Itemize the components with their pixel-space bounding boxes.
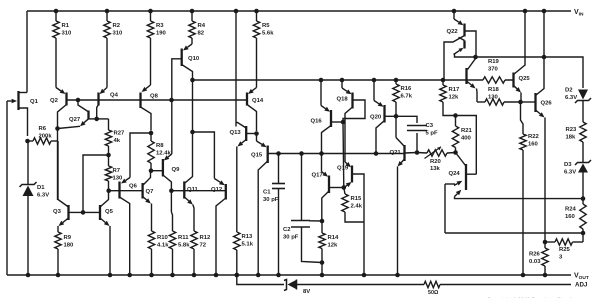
node Q22/Q23 collector junction: [473, 55, 478, 60]
node C2 bottom / R14 bottom: [320, 260, 325, 265]
svg-text:5.6k: 5.6k: [262, 31, 274, 37]
node rail joints: [26, 273, 31, 278]
resistor R14: [321, 221, 323, 233]
resistor R12: [193, 205, 194, 232]
transistor Q27: [76, 98, 81, 103]
resistor R6: [25, 139, 30, 144]
node V_IN rail / Q25 collector: [523, 9, 528, 14]
node R16 bottom / Q20 base / C3 / Q21 collector: [394, 114, 399, 119]
transistor Q4: [106, 38, 108, 88]
node Q20 collector on Q15 base line: [374, 151, 379, 156]
capacitor C1: [276, 151, 281, 156]
zener diode D3: [575, 160, 591, 165]
svg-text:Q6: Q6: [129, 184, 138, 190]
resistor R1: [54, 9, 59, 14]
svg-text:Q21: Q21: [390, 150, 402, 156]
svg-text:Q20: Q20: [370, 115, 382, 121]
transistor Q5: [99, 205, 101, 220]
resistor R22: [521, 102, 524, 134]
node Q13 base / Q14 collector: [254, 131, 259, 136]
svg-text:30 pF: 30 pF: [283, 235, 299, 241]
svg-text:160: 160: [565, 214, 576, 220]
wire base line to R20 node: [405, 152, 418, 155]
svg-text:R11: R11: [178, 235, 189, 241]
svg-text:18k: 18k: [566, 135, 577, 141]
node D3 / R24 / Q24 emitter line: [581, 196, 586, 201]
transistor Q20: [372, 78, 377, 83]
node Q12 emitter tap: [190, 130, 195, 135]
svg-text:Q25: Q25: [519, 76, 531, 82]
wire emitter feed to Q12: [193, 132, 215, 179]
svg-text:370: 370: [488, 67, 499, 73]
svg-text:R4: R4: [198, 23, 206, 29]
svg-text:R9: R9: [64, 235, 72, 241]
svg-text:180: 180: [64, 243, 75, 249]
svg-text:R12: R12: [200, 235, 212, 241]
transistor Q9: [168, 154, 172, 157]
svg-text:6.3V: 6.3V: [37, 193, 49, 199]
resistor R25: [555, 239, 573, 245]
svg-text:R16: R16: [401, 86, 413, 92]
resistor R19: [483, 77, 505, 83]
svg-text:Q9: Q9: [172, 167, 181, 173]
wire Q1 gate to bottom rail corner: [6, 101, 8, 275]
resistor 50 ohm: [424, 281, 440, 287]
svg-text:C1: C1: [263, 190, 271, 196]
wire junction to Q3-Q5 base rail: [83, 155, 109, 212]
transistor Q1: [19, 92, 27, 94]
svg-text:Q16: Q16: [311, 119, 323, 125]
svg-text:Q17: Q17: [312, 173, 324, 179]
svg-text:6.3V: 6.3V: [564, 170, 576, 176]
svg-text:R3: R3: [156, 23, 164, 29]
transistor Q19: [345, 162, 347, 164]
transistor Q17: [319, 151, 324, 156]
node Q10 collector / bias rail start: [190, 78, 195, 83]
resistor R20 (with adjust arrow): [417, 152, 427, 155]
svg-text:190: 190: [156, 31, 167, 37]
svg-text:R6: R6: [39, 126, 47, 132]
svg-text:R21: R21: [461, 128, 473, 134]
transistor Q6: [126, 178, 131, 181]
wire Q10 base column to Q9 emitter: [171, 100, 173, 154]
svg-text:Q26: Q26: [541, 101, 553, 107]
svg-text:Q7: Q7: [146, 189, 155, 195]
svg-text:30 pF: 30 pF: [263, 197, 279, 203]
svg-text:5.1k: 5.1k: [242, 242, 254, 248]
svg-text:D3: D3: [564, 162, 572, 168]
wire ADJ to terminal: [440, 284, 571, 286]
svg-text:5.8k: 5.8k: [178, 243, 190, 249]
svg-text:Q12: Q12: [211, 187, 223, 193]
resistor R17: [441, 78, 446, 83]
svg-text:Q15: Q15: [251, 153, 263, 159]
node R21 bottom / R20 right / Q24 top: [453, 150, 458, 155]
svg-text:12k: 12k: [449, 95, 460, 101]
transistor Q3: [67, 205, 69, 220]
svg-text:R14: R14: [328, 235, 340, 241]
zener diode D1: [27, 141, 29, 185]
svg-text:Q22: Q22: [447, 29, 459, 35]
svg-text:R5: R5: [262, 23, 270, 29]
svg-text:R7: R7: [113, 168, 121, 174]
svg-text:4.1k: 4.1k: [157, 243, 169, 249]
svg-text:Q8: Q8: [150, 94, 159, 100]
transistor Q7: [120, 190, 143, 192]
transistor Q25: [512, 73, 514, 88]
svg-text:Q2: Q2: [50, 98, 59, 104]
node Q11 base / Q9 collector / R11 top: [169, 188, 174, 193]
node Q17 base / Q19 emitter / R15 top: [342, 185, 347, 190]
wire column to Q11 collector: [192, 132, 194, 174]
svg-text:2.4k: 2.4k: [351, 204, 363, 210]
svg-text:Q5: Q5: [105, 209, 114, 215]
svg-text:4k: 4k: [114, 138, 121, 144]
wire Q15 base line: [268, 153, 405, 155]
svg-text:130: 130: [488, 95, 499, 101]
transistor Q10: [191, 38, 193, 44]
svg-text:130: 130: [113, 176, 124, 182]
resistor R16: [394, 78, 399, 83]
svg-text:R27: R27: [114, 131, 126, 137]
svg-text:R2: R2: [113, 23, 121, 29]
node R7 bottom / Q6 base / Q5 collector: [106, 188, 111, 193]
wire y57 to right edge column: [476, 56, 545, 58]
wire R24 bottom to R25: [582, 233, 584, 242]
svg-text:310: 310: [113, 31, 124, 37]
svg-text:R26: R26: [529, 252, 541, 258]
svg-text:D1: D1: [37, 185, 45, 191]
resistor R8: [150, 133, 152, 141]
svg-text:6.7k: 6.7k: [401, 94, 413, 100]
wire node to Q24 collector column: [456, 116, 477, 175]
svg-text:R15: R15: [351, 196, 363, 202]
svg-text:Q27: Q27: [69, 117, 81, 123]
svg-text:72: 72: [200, 243, 207, 249]
svg-text:C2: C2: [283, 227, 291, 233]
svg-text:R19: R19: [488, 59, 500, 65]
svg-text:R24: R24: [565, 207, 577, 213]
svg-text:ADJ: ADJ: [575, 282, 588, 289]
svg-text:50Ω: 50Ω: [428, 290, 439, 296]
node C2 top / Q17 collector / R14 top: [320, 219, 325, 224]
svg-text:Q19: Q19: [337, 166, 349, 172]
zener diode D2: [575, 98, 591, 103]
svg-text:R13: R13: [242, 234, 254, 240]
transistor Q23: [468, 57, 476, 70]
transistor Q16: [319, 78, 324, 83]
capacitor C3: [396, 116, 417, 123]
node R8 bottom / Q9 base / Q7 collector: [149, 168, 154, 173]
resistor R10: [151, 204, 153, 232]
transistor Q14: [256, 38, 258, 88]
wire top right branch: [544, 57, 583, 88]
svg-text:82: 82: [198, 31, 205, 37]
transistor Q21: [395, 116, 397, 137]
transistor Q12: [214, 179, 220, 183]
svg-text:6.3V: 6.3V: [565, 95, 577, 101]
resistor R21: [455, 116, 457, 127]
wire ADJ line: [237, 275, 284, 285]
svg-text:8V: 8V: [303, 289, 310, 295]
node R25 left / Q26 emitter / R26 top: [543, 240, 548, 245]
zener diode 8V: [284, 280, 297, 291]
resistor R7: [108, 155, 110, 166]
wire V_IN column to y57 node: [543, 11, 545, 57]
node Q10 base on common base line: [169, 98, 174, 103]
svg-text:Q4: Q4: [110, 93, 119, 99]
svg-text:Q13: Q13: [230, 130, 242, 136]
svg-text:R10: R10: [157, 235, 169, 241]
wire ADJ line continues: [297, 284, 425, 286]
transistor Q13: [235, 125, 237, 127]
transistor Q11: [171, 190, 184, 192]
resistor R4: [190, 9, 195, 14]
svg-text:D2: D2: [565, 88, 573, 94]
transistor Q24: [456, 153, 466, 166]
svg-text:C3: C3: [426, 123, 434, 129]
svg-text:12k: 12k: [328, 243, 339, 249]
node Q26 collector / D2 branch: [542, 55, 547, 60]
transistor Q2: [55, 38, 57, 88]
resistor R15: [344, 188, 345, 195]
node ADJ tap: [235, 273, 240, 278]
transistor Q22: [452, 9, 457, 14]
transistor Q15: [256, 134, 258, 142]
node Q25 emitter / R18 / R22 / Q26 base: [518, 100, 523, 105]
wire Q24 emitter line to D3 node: [456, 198, 584, 200]
svg-text:13k: 13k: [430, 166, 441, 172]
svg-text:0.03: 0.03: [529, 259, 541, 265]
svg-text:R1: R1: [62, 23, 70, 29]
wire V_IN top rail: [27, 10, 571, 12]
node C3 bottom on R20 line: [415, 150, 420, 155]
wire mirror base column down: [342, 122, 345, 188]
capacitor C2: [299, 151, 304, 156]
node V_IN rail / Q26 collector tap: [542, 9, 547, 14]
svg-text:310: 310: [62, 31, 73, 37]
svg-text:Q10: Q10: [188, 56, 200, 62]
svg-text:Q3: Q3: [53, 209, 62, 215]
resistor R5: [254, 9, 259, 14]
resistor R26: [544, 242, 546, 248]
resistor R11: [170, 191, 172, 212]
svg-text:Q24: Q24: [449, 171, 461, 177]
wire Q24 base line2 to R24 bottom: [445, 232, 583, 234]
node R27 bottom junction: [106, 153, 111, 158]
resistor R23: [580, 122, 586, 142]
resistor R13: [234, 232, 240, 250]
resistor R9: [55, 232, 61, 249]
svg-text:R8: R8: [156, 143, 164, 149]
resistor R27: [108, 119, 110, 130]
wire common base line Q2 Q4 Q8 Q14: [67, 99, 248, 101]
svg-text:R25: R25: [559, 247, 571, 253]
svg-text:R17: R17: [449, 87, 461, 93]
svg-text:Q1: Q1: [30, 99, 39, 105]
wire R6 column down to Q3 collector: [57, 141, 59, 200]
svg-text:400: 400: [461, 136, 472, 142]
wire bottom rail V_OUT: [7, 274, 571, 276]
resistor R3: [148, 9, 153, 14]
svg-text:R18: R18: [488, 87, 500, 93]
node R24 bottom / line2: [581, 231, 586, 236]
node Q2 collector / Q27 emitter: [55, 126, 60, 131]
wire Q19 base column to bottom rail: [363, 222, 365, 275]
wire V_IN to Q13 collector column: [234, 9, 239, 14]
svg-text:160: 160: [528, 142, 539, 148]
wire Q10 collector column to Q11 collector: [192, 80, 194, 132]
resistor R2: [105, 9, 110, 14]
svg-text:R20: R20: [430, 159, 442, 165]
svg-text:R23: R23: [566, 127, 578, 133]
wire R8-top to Q6 emitter: [130, 133, 151, 178]
node R8 top / Q8 collector / Q6 emitter feed: [149, 131, 154, 136]
wire Q3-Q5 base line: [69, 211, 101, 213]
transistor Q26: [521, 101, 536, 103]
transistor Q8: [150, 38, 152, 85]
svg-text:200k: 200k: [39, 134, 53, 140]
transistor Q18: [340, 78, 345, 83]
wire bias rail: [193, 79, 467, 81]
node R17 bottom / R21 top / Q24 feed: [453, 113, 458, 118]
svg-text:R22: R22: [528, 134, 540, 140]
svg-text:5 pF: 5 pF: [426, 131, 439, 137]
svg-text:Q14: Q14: [252, 98, 264, 104]
node Q16-Q18 base tie: [341, 120, 346, 125]
resistor R24: [582, 199, 584, 204]
node Q27 base / Q4 collector / R27 top: [94, 117, 99, 122]
svg-text:Q18: Q18: [337, 97, 349, 103]
resistor R18: [477, 101, 485, 103]
